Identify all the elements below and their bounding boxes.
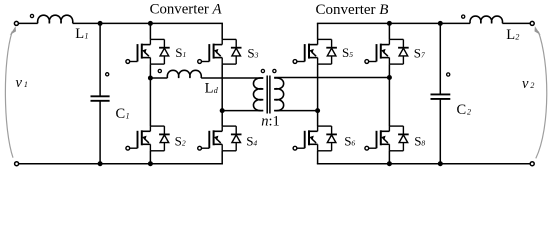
svg-text:v: v (522, 76, 529, 92)
transistor S5 (293, 39, 337, 64)
wire: Ld to transformer primary top (201, 77, 263, 79)
svg-text:1: 1 (24, 80, 28, 89)
inductor L2 (470, 16, 503, 23)
transistor S2 (126, 126, 170, 151)
node: leg1 midpoint (148, 76, 153, 81)
svg-text:Converter A: Converter A (150, 2, 222, 18)
wire: C2 branch vertical (439, 23, 441, 163)
terminal: v1 bottom (15, 162, 19, 166)
node: leg3 midpoint (315, 108, 320, 113)
arrow: v2 polarity arc (536, 32, 547, 159)
polarity dot transformer secondary (273, 69, 276, 72)
terminal: v1 top (14, 21, 18, 25)
svg-text:L: L (75, 26, 84, 42)
polarity dot for C1 (106, 73, 109, 76)
wire: transformer secondary bottom to leg3 midpoint (274, 110, 317, 112)
transistor S1 (126, 39, 170, 64)
wire: top bus converter B side (317, 22, 530, 24)
wire: leg 4 (S7/S8) vertical (388, 23, 390, 163)
svg-text:Converter B: Converter B (316, 2, 389, 18)
polarity dot for C2 (447, 73, 450, 76)
primary winding (253, 78, 263, 111)
node: leg4 top (387, 21, 392, 26)
node: C1 bottom (98, 161, 103, 166)
node: C2 top (438, 21, 443, 26)
wire: bottom bus converter B side (317, 163, 530, 165)
transistor S8 (365, 126, 409, 151)
svg-text:2: 2 (467, 107, 471, 116)
wire: leg 3 (S5/S6) vertical (317, 23, 319, 163)
svg-text:L: L (506, 27, 515, 43)
svg-text:n:1: n:1 (261, 114, 280, 130)
wire: leg 2 (S3/S4) vertical (221, 23, 223, 163)
svg-text:2: 2 (515, 32, 519, 41)
svg-text:C: C (457, 102, 467, 118)
node: leg4 midpoint (387, 75, 392, 80)
node: leg2 midpoint (220, 108, 225, 113)
transistor S4 (198, 126, 242, 151)
node: leg1 bottom (148, 161, 153, 166)
polarity dot for L2 (462, 15, 465, 18)
transistor S6 (293, 126, 337, 151)
capacitor C2 (431, 94, 451, 99)
terminal: v2 bottom (530, 162, 534, 166)
polarity dot for Ld (158, 69, 161, 72)
transformer T1 (253, 76, 283, 114)
wire: transformer primary bottom to leg2 midpoint (222, 110, 263, 112)
svg-text:L: L (205, 81, 214, 97)
transistor S7 (365, 39, 409, 64)
inductor L1 (38, 15, 73, 23)
wire: leg 1 (S1/S2) vertical (149, 23, 151, 163)
transistor S3 (198, 39, 242, 64)
polarity dot for L1 (30, 14, 33, 17)
polarity dot transformer primary (261, 69, 264, 72)
wire: bottom bus converter A side (19, 163, 223, 165)
node: leg1 top (148, 21, 153, 26)
svg-text:C: C (116, 106, 126, 122)
node: C1 top (98, 21, 103, 26)
terminal: v2 top (530, 21, 534, 25)
wire: transformer secondary top to leg4 midpoint (274, 77, 389, 79)
wire: Ld feed from leg1 midpoint (150, 77, 167, 79)
capacitor C1 (91, 96, 110, 101)
svg-text:2: 2 (530, 81, 534, 90)
svg-text:1: 1 (126, 111, 130, 120)
arrow: v1 polarity arc (5, 32, 13, 158)
node: leg4 bottom (387, 161, 392, 166)
wire: top bus converter A side (19, 22, 223, 24)
secondary winding (274, 78, 283, 111)
wire: C1 branch vertical (99, 23, 101, 163)
node: C2 bottom (438, 161, 443, 166)
svg-text:1: 1 (85, 31, 89, 40)
svg-text:v: v (16, 75, 23, 91)
inductor Ld (167, 70, 201, 78)
core bars (266, 76, 268, 114)
